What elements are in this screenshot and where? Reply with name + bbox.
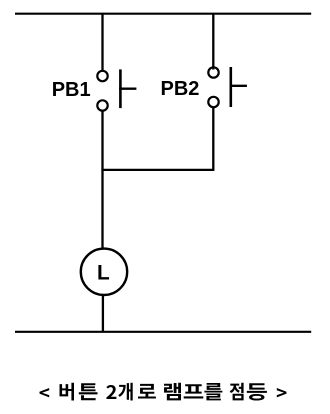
caption glyph 버 <box>60 383 75 401</box>
pushbutton PB2 actuator rod <box>230 85 247 87</box>
wire: lamp bottom to bottom rail <box>102 295 104 332</box>
caption glyph 등 <box>247 383 267 400</box>
caption glyph 로 <box>138 384 156 399</box>
lamp L circle <box>81 249 127 295</box>
svg-text:PB1: PB1 <box>52 79 91 101</box>
caption glyph 를 <box>204 383 222 400</box>
caption glyph 2 <box>106 385 116 399</box>
wire: top rail to PB2 top terminal <box>212 14 214 70</box>
top supply rail wire <box>15 13 311 15</box>
pushbutton PB1 actuator rod <box>119 88 136 90</box>
caption glyph 램 <box>164 383 181 401</box>
caption glyph 개 <box>118 383 132 401</box>
pushbutton PB2 actuator bar <box>230 67 233 107</box>
wire: PB2 bottom terminal down and left to junction on PB1 branch <box>101 108 213 170</box>
caption glyph 점 <box>230 383 244 401</box>
bottom supply rail wire <box>15 331 311 333</box>
caption text: < 버튼 2개로 램프를 점등 > <box>39 383 286 401</box>
pushbutton PB1 bottom contact terminal <box>97 100 107 110</box>
pushbutton PB2 top contact terminal <box>208 67 218 77</box>
pushbutton PB2 bottom contact terminal <box>208 97 218 107</box>
caption glyph lt <box>39 388 49 397</box>
pushbutton PB1 top contact terminal <box>97 71 107 81</box>
caption glyph 프 <box>184 384 204 398</box>
caption glyph gt <box>277 388 287 397</box>
wire: PB1 bottom terminal down to junction and lamp <box>101 111 103 250</box>
svg-text:L: L <box>97 261 110 284</box>
pushbutton PB1 actuator bar <box>119 69 122 108</box>
svg-text:PB2: PB2 <box>161 78 200 100</box>
caption glyph 튼 <box>79 383 98 400</box>
wire: top rail to PB1 top terminal <box>101 14 103 71</box>
